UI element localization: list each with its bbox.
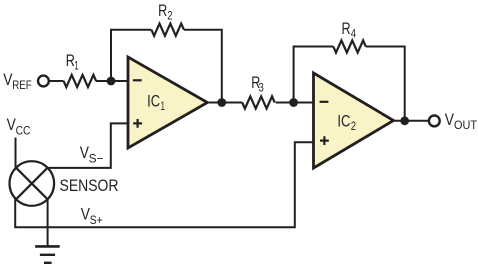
wire R3 to IC2 inverting input [276, 102, 314, 104]
label R1 [66, 51, 79, 73]
terminal VOUT (open circle) [429, 116, 440, 127]
IC1 inverting pin minus marker [133, 79, 142, 81]
wire R4 to IC2 output vertical [366, 47, 405, 121]
label VS- [80, 143, 104, 165]
wire feedback R4 left vertical and top rail [294, 47, 334, 103]
resistor R2 [151, 24, 183, 36]
svg-text:R: R [342, 19, 351, 38]
svg-text:CC: CC [16, 124, 31, 138]
label VCC [7, 115, 31, 137]
resistor R4 [333, 40, 366, 52]
svg-text:2: 2 [167, 8, 173, 22]
svg-text:R: R [158, 1, 167, 20]
svg-text:S+: S+ [90, 213, 103, 227]
wire VS- sensor to IC1 noninverting input [47, 123, 128, 167]
label VOUT [445, 110, 478, 132]
label R4 [342, 19, 357, 41]
op-amp U2 (IC2) [314, 73, 394, 168]
resistor R1 [64, 75, 96, 87]
svg-text:3: 3 [259, 81, 265, 95]
node A IC1 inverting input junction [107, 77, 116, 86]
wire R1 to IC1 inverting input [96, 80, 128, 82]
wire VREF terminal to R1 [50, 80, 64, 82]
ground [35, 246, 60, 262]
label IC1 [147, 91, 165, 113]
wire feedback R2 left vertical and top rail [111, 30, 151, 81]
IC1 noninverting pin plus marker [133, 119, 142, 128]
node D IC2 output junction [400, 116, 409, 125]
svg-text:1: 1 [161, 99, 166, 113]
svg-text:SENSOR: SENSOR [60, 176, 119, 195]
svg-text:IC: IC [337, 112, 350, 131]
label R3 [251, 73, 264, 95]
terminal VREF (open circle) [38, 76, 49, 87]
svg-text:S−: S− [89, 152, 104, 166]
op-amp U1 (IC1) [128, 57, 207, 148]
label R2 [158, 1, 173, 23]
node B IC1 output junction [217, 98, 226, 107]
node C IC2 inverting input junction [289, 98, 298, 107]
svg-text:OUT: OUT [454, 118, 478, 132]
IC2 noninverting pin plus marker [320, 136, 329, 145]
wire sensor to ground [47, 199, 49, 247]
wire IC2 output to VOUT terminal [392, 120, 428, 122]
resistor R3 [242, 96, 275, 108]
svg-text:2: 2 [351, 119, 357, 133]
svg-text:IC: IC [147, 91, 160, 110]
label VS+ [81, 204, 103, 226]
wire IC1 output to R3 [206, 102, 242, 104]
svg-text:REF: REF [12, 78, 32, 92]
wire R2 to IC1 output vertical [184, 30, 222, 103]
IC2 inverting pin minus marker [320, 101, 329, 103]
wire VS+ sensor to IC2 noninverting input [15, 142, 314, 227]
label IC2 [337, 112, 356, 134]
label VREF [3, 70, 32, 92]
wire VCC down to sensor [15, 138, 17, 170]
sensor bridge (circle with X) [10, 161, 55, 206]
svg-text:4: 4 [351, 26, 357, 40]
svg-text:1: 1 [74, 58, 79, 72]
